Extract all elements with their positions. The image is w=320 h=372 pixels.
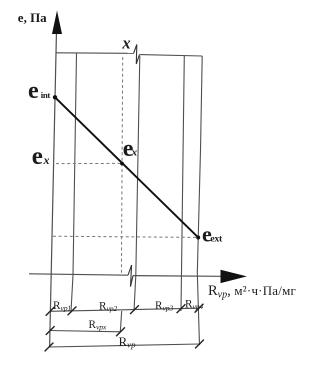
- svg-text:Rvp1: Rvp1: [53, 300, 71, 313]
- svg-text:x: x: [121, 34, 130, 53]
- svg-text:Rvpх: Rvpх: [89, 319, 107, 332]
- dimension row2 line: [50, 331, 121, 332]
- row1 tick at right edge: [195, 304, 204, 313]
- dimension row1 line: [50, 308, 199, 311]
- row1 tick at Rvp3/Rvp4: [177, 304, 186, 313]
- x-axis arrow head: [221, 270, 247, 283]
- vapor pressure sloping line e_int to e_ext: [55, 97, 198, 237]
- right wall edge: [197, 56, 202, 345]
- svg-text:x: x: [131, 147, 138, 159]
- y-axis (e axis) vertical line: [50, 30, 57, 348]
- row2 tick right: [116, 327, 125, 336]
- svg-text:Rvp3: Rvp3: [155, 300, 173, 313]
- dashed helper horizontal at e_ext level: [53, 236, 196, 237]
- svg-text:ext: ext: [210, 234, 223, 245]
- top boundary break zigzag: [134, 45, 140, 65]
- svg-text:Rvp: Rvp: [119, 334, 137, 350]
- extension line for x dimension: [120, 311, 121, 332]
- svg-text:x: x: [43, 153, 50, 167]
- point e_int: [53, 95, 57, 99]
- wall layer boundary at Rvp3 end: [181, 55, 184, 311]
- dashed helper horizontal at e_x level: [56, 162, 121, 164]
- row1 tick at Rvp2/Rvp3: [130, 305, 139, 314]
- svg-text:e: e: [28, 78, 39, 104]
- row2 tick left: [46, 326, 55, 335]
- wall layer boundary at Rvp2 end: [134, 56, 140, 311]
- top boundary line right segment: [140, 55, 203, 56]
- y-axis arrow head: [52, 11, 62, 35]
- svg-text:Rvp4: Rvp4: [185, 299, 203, 312]
- svg-text:e, Па: e, Па: [18, 10, 47, 25]
- top boundary line left segment: [56, 52, 134, 55]
- svg-text:Rvp2: Rvp2: [99, 300, 117, 313]
- svg-text:int: int: [41, 90, 51, 100]
- dashed vertical line at position x: [121, 57, 122, 275]
- svg-text:e: e: [32, 143, 43, 170]
- x-axis break zigzag: [128, 265, 133, 287]
- row3 tick right: [195, 340, 204, 349]
- svg-text:Rvp, м²·ч·Па/мг: Rvp, м²·ч·Па/мг: [208, 283, 296, 301]
- dimension row3 line: [49, 344, 200, 347]
- row3 tick left: [45, 343, 54, 352]
- row1 tick at Rvp1/Rvp2: [68, 307, 77, 316]
- row1 tick at e-axis: [46, 307, 55, 316]
- wall layer boundary at Rvp1 end: [71, 53, 77, 311]
- point e_ext: [196, 236, 200, 240]
- point e_x on line: [120, 162, 124, 166]
- x-axis left segment: [29, 274, 128, 275]
- x-axis right segment: [133, 275, 221, 278]
